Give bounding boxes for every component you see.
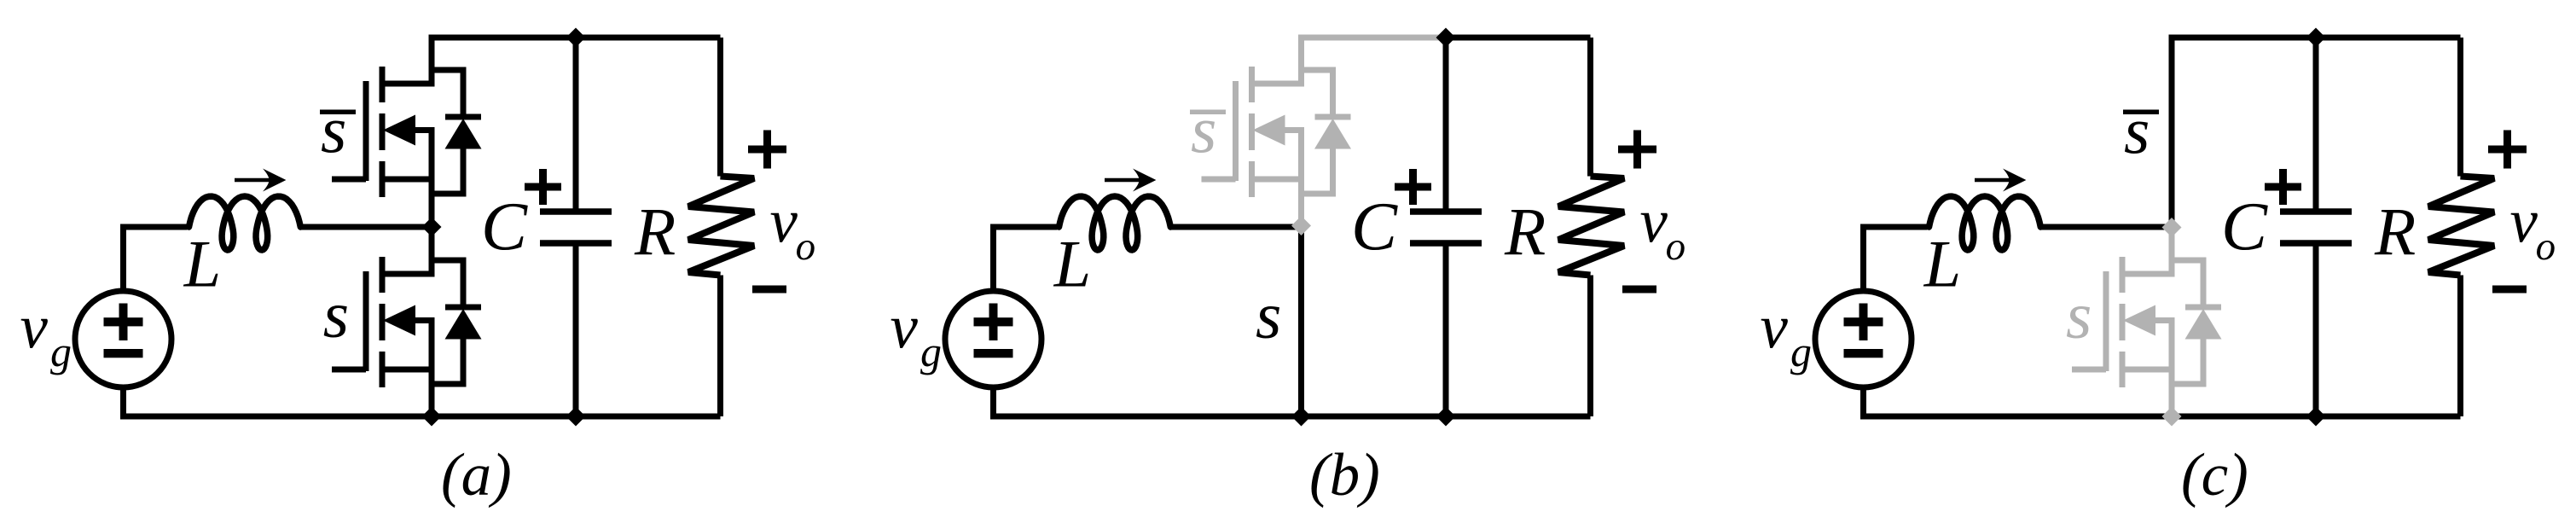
mosfet Q-sbar (a) channel segment 1 [380, 67, 386, 102]
svg-text:g: g [50, 328, 72, 375]
mosfet Q-sbar gray (b) body diode triangle [1314, 119, 1351, 149]
wire vg bottom (c) [1860, 385, 1866, 416]
bottom rail (c) [1860, 414, 2461, 420]
mosfet Q-sbar (a) body diode triangle [445, 119, 482, 149]
resistor R (a) top lead [717, 38, 723, 177]
capacitor C (a) bottom plate [540, 240, 612, 247]
mosfet Q-sbar (a) gate lead [332, 177, 366, 183]
svg-text:L: L [183, 227, 221, 301]
svg-text:o: o [796, 224, 816, 269]
bottom rail (a) [120, 414, 721, 420]
mosfet Q-s (a) channel segment 1 [380, 257, 386, 293]
voltage source Vg (b) minus sign [974, 349, 1013, 358]
voltage source Vg (b) circle [945, 291, 1041, 387]
mosfet Q-sbar gray (b) gate bar [1233, 81, 1239, 181]
svg-text:C: C [2221, 189, 2268, 265]
svg-text:L: L [1923, 227, 1961, 301]
mosfet Q-sbar (a) body diode cathode wire [432, 70, 463, 117]
svg-text:v: v [891, 293, 919, 362]
svg-text:v: v [20, 293, 49, 362]
svg-text:s: s [323, 277, 349, 352]
mosfet Q-sbar gray (b) channel segment 1 [1249, 67, 1255, 102]
output plus sign (b) [1618, 146, 1656, 154]
mosfet Q-s (a) channel segment 3 [380, 352, 386, 387]
mosfet Q-s gray (c) drain contact [2122, 271, 2175, 277]
inductor L (c) coil [1929, 196, 2041, 250]
mosfet Q-sbar (a) body arrow [413, 127, 435, 133]
capacitor C (a) top plate [540, 208, 612, 215]
junction capacitor top (a) [566, 28, 586, 48]
mosfet Q-sbar (a) channel segment 3 [380, 161, 386, 197]
mosfet Q-sbar gray (b) body arrow [1283, 127, 1305, 133]
mosfet Q-sbar gray (b) channel segment 3 [1249, 161, 1255, 197]
svg-text:v: v [1640, 187, 1668, 256]
wire vg bottom (b) [990, 385, 996, 416]
junction Q-s source at bottom rail (a) [422, 407, 442, 427]
voltage source Vg (c) minus sign [1844, 349, 1883, 358]
svg-text:v: v [1761, 293, 1789, 362]
svg-text:C: C [1351, 189, 1398, 265]
voltage source Vg (a) minus sign [104, 349, 143, 358]
inductor current arrow (c) [1975, 178, 2016, 183]
capacitor plus sign (b) [1395, 183, 1431, 191]
output minus sign (b) [1622, 286, 1656, 294]
mosfet Q-s gray (c) channel segment 3 [2120, 352, 2126, 387]
voltage source Vg (c) plus sign [1844, 317, 1883, 326]
mosfet Q-s (a) body diode cathode wire [432, 260, 463, 307]
wire Q-s source to bottom rail (a) [429, 321, 435, 420]
capacitor C (a) bottom lead [573, 243, 579, 416]
mosfet Q-s (a) source contact [382, 367, 435, 373]
svg-text:R: R [2374, 196, 2416, 270]
voltage source Vg (a) plus sign [104, 317, 143, 326]
resistor R (b) bottom lead [1587, 276, 1593, 417]
svg-text:s: s [2066, 278, 2092, 352]
resistor R (c) zigzag [2428, 177, 2494, 276]
capacitor C (c) top lead [2313, 38, 2319, 212]
mosfet Q-s (a) body diode cathode bar [445, 305, 481, 311]
mosfet Q-s gray (c) body diode cathode wire [2172, 260, 2203, 307]
junction closed switch at bottom rail (b) [1291, 407, 1311, 427]
wire vg top to inductor (b) [994, 227, 1058, 294]
output plus sign (a) [748, 146, 786, 154]
inductor current arrow (a) [235, 178, 276, 183]
mosfet Q-sbar gray (b) gate lead [1202, 177, 1236, 183]
mosfet Q-s gray (c) channel segment 1 [2120, 257, 2126, 293]
mosfet Q-s gray (c) gate bar [2103, 271, 2109, 371]
junction capacitor top (c) [2306, 28, 2326, 48]
mosfet Q-s (a) body arrow [413, 317, 435, 323]
svg-text:R: R [1504, 196, 1546, 270]
capacitor C (a) top lead [573, 38, 579, 212]
mosfet Q-sbar gray (b) body diode cathode wire [1302, 70, 1333, 117]
black top rail (b) [1446, 35, 1591, 41]
svg-text:g: g [1790, 328, 1812, 375]
mosfet Q-sbar (a) source contact [382, 177, 435, 183]
resistor R (b) top lead [1587, 38, 1593, 177]
capacitor C (c) bottom lead [2313, 243, 2319, 416]
mosfet Q-sbar (a) body diode cathode bar [445, 114, 481, 120]
mosfet Q-sbar gray (b) source contact [1252, 177, 1305, 183]
resistor R (c) bottom lead [2457, 276, 2463, 417]
resistor R (c) top lead [2457, 38, 2463, 177]
mosfet Q-s (a) drain contact [382, 271, 435, 277]
output minus sign (c) [2492, 286, 2527, 294]
mosfet Q-sbar gray (b) drain contact [1252, 81, 1305, 87]
bottom rail (b) [990, 414, 1591, 420]
capacitor C (c) top plate [2280, 208, 2352, 215]
mosfet Q-sbar gray (b) body diode anode wire [1302, 148, 1333, 194]
svg-text:s: s [1256, 278, 1281, 352]
wire vg top to inductor (a) [124, 227, 188, 294]
output plus sign (c) [2488, 146, 2527, 154]
resistor R (b) zigzag [1558, 177, 1624, 276]
wire vg top to inductor (c) [1864, 227, 1928, 294]
wire vg bottom (a) [120, 385, 126, 416]
gray junction Q-s drain node (c) [2162, 218, 2182, 237]
gray junction Q-sbar source node (b) [1291, 216, 1311, 235]
mosfet Q-s gray (c) source contact [2122, 367, 2175, 373]
svg-text:o: o [1666, 224, 1686, 269]
capacitor plus sign (c) [2265, 183, 2301, 191]
svg-text:s: s [2124, 93, 2150, 167]
gray junction Q-s source at bottom rail (c) [2162, 407, 2182, 427]
junction capacitor bottom (b) [1436, 407, 1456, 427]
junction capacitor bottom (c) [2306, 407, 2326, 427]
svg-text:s: s [1191, 92, 1216, 166]
mosfet Q-sbar gray (b) channel segment 2 [1249, 113, 1255, 150]
mosfet Q-s gray (c) body diode triangle [2185, 309, 2222, 340]
inductor L (a) coil [189, 196, 301, 250]
mosfet Q-sbar (a) channel segment 2 [380, 113, 386, 150]
inductor L (b) coil [1059, 196, 1171, 250]
svg-text:(c): (c) [2181, 442, 2248, 509]
mosfet Q-s (a) gate lead [332, 367, 366, 373]
wire node A to Q-s drain (a) [429, 227, 435, 274]
gray wire switch node to Q-s drain (c) [2169, 227, 2175, 274]
mosfet Q-s gray (c) body diode cathode bar [2185, 305, 2221, 311]
capacitor C (b) top lead [1443, 38, 1449, 212]
svg-text:g: g [920, 328, 942, 375]
voltage source Vg (c) circle [1815, 291, 1912, 387]
wire inductor to closed switch s (b) [1170, 227, 1302, 420]
mosfet Q-s (a) body diode triangle [445, 309, 482, 340]
svg-text:(b): (b) [1309, 442, 1380, 509]
mosfet Q-sbar (a) body diode anode wire [432, 148, 463, 194]
capacitor C (b) top plate [1410, 208, 1482, 215]
mosfet Q-s gray (c) body diode anode wire [2172, 339, 2203, 384]
capacitor C (b) bottom lead [1443, 243, 1449, 416]
wire inductor to switch node (a) [300, 224, 432, 230]
junction capacitor bottom (a) [566, 407, 586, 427]
inductor current arrow (b) [1105, 178, 1146, 183]
mosfet Q-sbar gray (b) body diode cathode bar [1315, 114, 1351, 120]
svg-text:C: C [481, 189, 528, 265]
mosfet Q-s (a) channel segment 2 [380, 304, 386, 340]
svg-text:v: v [770, 187, 798, 256]
mosfet Q-sbar (a) drain contact [382, 81, 435, 87]
wire Q-sbar source to node A (a) [429, 131, 435, 228]
gray top rail Q-sbar drain to output (b) [1302, 38, 1447, 84]
mosfet Q-s (a) gate bar [363, 271, 369, 371]
junction node A switch node (a) [422, 218, 442, 237]
resistor R (a) bottom lead [717, 276, 723, 417]
svg-text:R: R [634, 196, 676, 270]
gray wire Q-sbar source to switch node (b) [1298, 131, 1304, 221]
capacitor C (b) bottom plate [1410, 240, 1482, 247]
mosfet Q-s gray (c) channel segment 2 [2120, 304, 2126, 340]
svg-text:s: s [321, 92, 346, 166]
svg-text:v: v [2510, 187, 2538, 256]
resistor R (a) zigzag [688, 177, 754, 276]
capacitor C (c) bottom plate [2280, 240, 2352, 247]
output minus sign (a) [752, 286, 786, 294]
voltage source Vg (b) plus sign [974, 317, 1013, 326]
mosfet Q-s (a) body diode anode wire [432, 339, 463, 384]
svg-text:o: o [2536, 224, 2556, 269]
svg-text:(a): (a) [441, 442, 512, 509]
svg-text:L: L [1053, 227, 1091, 301]
mosfet Q-s gray (c) body arrow [2153, 317, 2175, 323]
voltage source Vg (a) circle [75, 291, 171, 387]
gray wire Q-s source to bottom rail (c) [2169, 321, 2175, 420]
wire inductor to closed switch s-bar and top rail (c) [2040, 38, 2461, 227]
capacitor plus sign (a) [525, 183, 561, 191]
node: output bus / drain wire of Q-sbar (a) [432, 38, 721, 84]
junction capacitor top (b) [1436, 28, 1456, 48]
mosfet Q-s gray (c) gate lead [2072, 367, 2106, 373]
mosfet Q-sbar (a) gate bar [363, 81, 369, 181]
